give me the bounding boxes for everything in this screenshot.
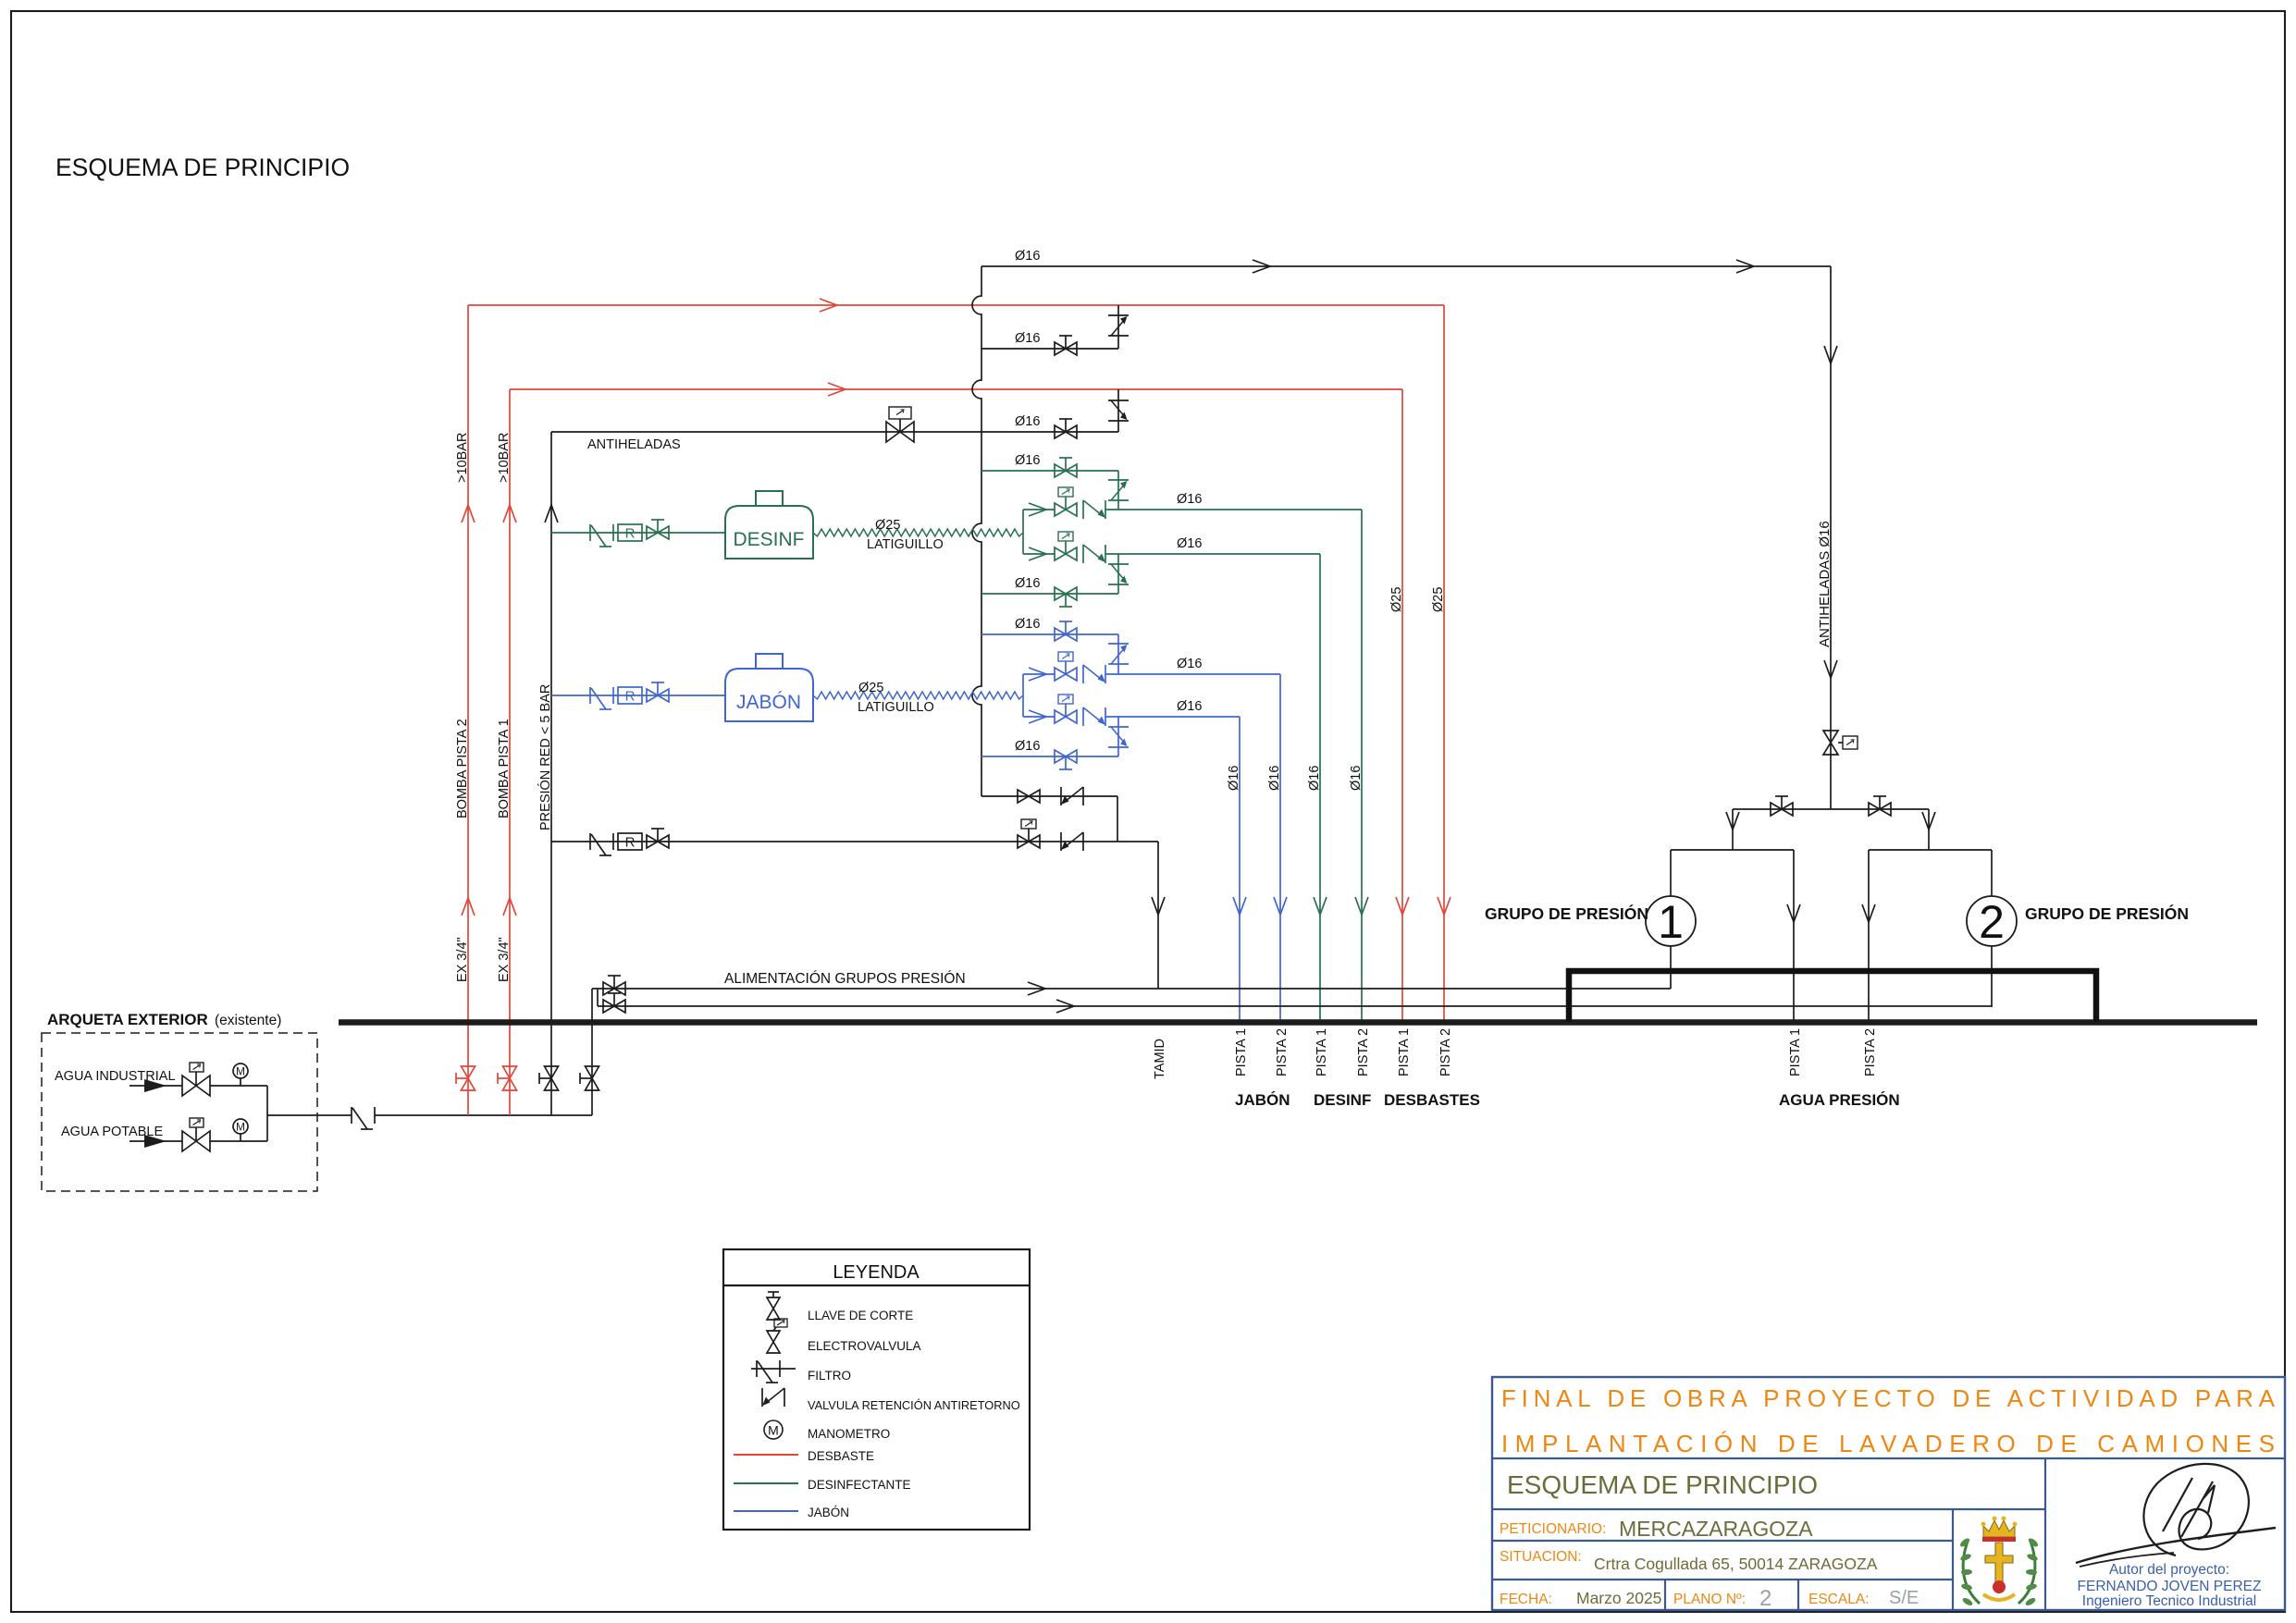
label EX 3/4" (pista 1) xyxy=(497,937,512,982)
blue electrovalve 2 xyxy=(1055,695,1077,723)
red riser BOMBA PISTA 1 valve xyxy=(498,1066,517,1090)
svg-text:2: 2 xyxy=(1979,896,2005,948)
value direccion xyxy=(1594,1555,1878,1573)
label AGUA PRESION bottom xyxy=(1779,1091,1900,1109)
svg-text:LEYENDA: LEYENDA xyxy=(833,1262,920,1283)
row377 riser to red line xyxy=(1117,305,1119,349)
svg-text:ANTIHELADAS: ANTIHELADAS xyxy=(587,437,681,452)
antiheladas right vertical wire xyxy=(1830,266,1832,809)
drain rowB electrovalve xyxy=(1018,819,1040,848)
subtitle ESQUEMA DE PRINCIPIO xyxy=(1507,1470,1818,1499)
blue branch2 wire a xyxy=(1023,716,1055,718)
row467 riser to red line xyxy=(1117,389,1119,432)
green branch1 arrow xyxy=(1029,503,1046,516)
label PLANO N xyxy=(1673,1592,1746,1607)
blue vertical PISTA1 wire xyxy=(1233,717,1246,1020)
svg-text:M: M xyxy=(236,1065,245,1078)
drain rowB valve xyxy=(647,829,669,848)
blue latiguillo zigzag xyxy=(813,692,1023,699)
svg-text:DESINFECTANTE: DESINFECTANTE xyxy=(808,1478,911,1492)
label O16 blue branch2 xyxy=(1177,699,1202,714)
blue row1 valve xyxy=(1055,621,1077,641)
svg-text:ELECTROVALVULA: ELECTROVALVULA xyxy=(808,1339,921,1353)
group2 span wire xyxy=(1869,849,1992,851)
circle node 1 xyxy=(1646,896,1696,948)
svg-text:(existente): (existente) xyxy=(215,1013,281,1028)
red line bomba pista 2 down wire xyxy=(1443,305,1445,1020)
label PISTA2 green xyxy=(1356,1028,1371,1076)
blue branch1 retention xyxy=(1083,665,1105,683)
wire valve to manometer node (industrial) xyxy=(210,1085,267,1087)
label O25 pista 2 xyxy=(1431,587,1446,612)
svg-text:ESQUEMA DE PRINCIPIO: ESQUEMA DE PRINCIPIO xyxy=(1507,1470,1818,1499)
group2 left vertical PISTA 2 xyxy=(1862,850,1875,1020)
svg-text:Ø16: Ø16 xyxy=(1227,766,1241,791)
red riser BOMBA PISTA 1 arrows xyxy=(503,505,516,916)
svg-text:Ø25: Ø25 xyxy=(1389,587,1404,612)
group1 left vertical (to circle 1) xyxy=(1670,850,1672,989)
svg-text:M: M xyxy=(768,1423,779,1438)
blue filter xyxy=(590,687,613,709)
drain rowA valve xyxy=(1018,790,1040,803)
blue electrovalve 1 xyxy=(1055,652,1077,681)
feed line 2 stub xyxy=(597,989,599,1006)
svg-text:DESINF: DESINF xyxy=(1314,1091,1371,1109)
red riser BOMBA PISTA 2 arrows xyxy=(462,505,475,916)
label PISTA1 blue xyxy=(1234,1028,1249,1076)
drawing title ESQUEMA DE PRINCIPIO xyxy=(56,154,350,181)
blue vertical PISTA2 wire xyxy=(1274,674,1287,1020)
manometer M industrial xyxy=(233,1064,248,1086)
red riser BOMBA PISTA 2 valve xyxy=(456,1066,475,1090)
svg-text:LLAVE DE CORTE: LLAVE DE CORTE xyxy=(808,1309,913,1322)
row467 retention valve xyxy=(1108,400,1129,421)
black riser arrow up xyxy=(545,505,558,523)
label JABON bottom xyxy=(1235,1091,1290,1109)
svg-text:GRUPO DE PRESIÓN: GRUPO DE PRESIÓN xyxy=(1485,904,1648,923)
svg-text:PISTA 2: PISTA 2 xyxy=(1863,1028,1878,1076)
svg-text:PETICIONARIO:: PETICIONARIO: xyxy=(1500,1521,1606,1537)
group2 drop wire xyxy=(1922,809,1935,850)
svg-text:Ø16: Ø16 xyxy=(1015,249,1040,264)
antiheladas electrovalve (right) xyxy=(1823,731,1858,755)
black riser PRESION RED wire xyxy=(550,432,552,1115)
svg-text:>10BAR: >10BAR xyxy=(455,433,470,483)
legend box + title xyxy=(723,1249,1030,1530)
tank DESINF xyxy=(725,491,813,559)
antiheladas wire xyxy=(551,431,1118,433)
black riser PRESION RED valve xyxy=(539,1066,559,1090)
label PISTA1 group xyxy=(1788,1028,1803,1076)
svg-text:FILTRO: FILTRO xyxy=(808,1369,851,1383)
svg-text:DESINF: DESINF xyxy=(733,529,804,550)
svg-text:Ø16: Ø16 xyxy=(1015,739,1040,754)
label EX 3/4" (pista 2) xyxy=(455,937,470,982)
svg-text:R: R xyxy=(625,526,636,542)
manifold vertical wire with hops xyxy=(972,266,981,796)
legend manometro xyxy=(764,1420,890,1441)
svg-text:PLANO Nº:: PLANO Nº: xyxy=(1673,1592,1746,1607)
label AGUA POTABLE xyxy=(61,1125,163,1139)
green row3 valve xyxy=(1055,587,1077,607)
feed riser wire (x=640) xyxy=(591,989,593,1115)
label GRUPO DE PRESION right xyxy=(2025,904,2189,923)
supply pipe wire to risers xyxy=(375,1114,592,1116)
antiheladas right arrows xyxy=(1824,346,1837,678)
svg-text:MANOMETRO: MANOMETRO xyxy=(808,1427,890,1441)
svg-text:GRUPO DE PRESIÓN: GRUPO DE PRESIÓN xyxy=(2025,904,2189,923)
svg-text:2: 2 xyxy=(1759,1586,1771,1611)
label DESINF bottom xyxy=(1314,1091,1371,1109)
label ANTIHELADAS O16 rotated xyxy=(1817,521,1833,647)
green branch1 wire b xyxy=(1105,509,1362,510)
label ANTIHELADAS xyxy=(587,437,681,452)
svg-text:R: R xyxy=(625,689,636,705)
svg-text:Ø16: Ø16 xyxy=(1267,766,1282,791)
svg-text:LATIGUILLO: LATIGUILLO xyxy=(858,700,934,715)
red down arrow pista 1 xyxy=(1396,897,1409,915)
blue retention v1 xyxy=(1108,644,1129,664)
svg-text:PISTA 1: PISTA 1 xyxy=(1788,1028,1803,1076)
red line bomba pista 2 horizontal wire xyxy=(468,304,1444,306)
legend desbaste xyxy=(734,1449,874,1463)
label BOMBA PISTA 2 xyxy=(455,719,470,818)
label O16 blue branch1 xyxy=(1177,657,1202,671)
red line bomba pista 2 arrow xyxy=(820,299,837,312)
green branch2 wire b xyxy=(1105,553,1320,555)
svg-text:ESCALA:: ESCALA: xyxy=(1808,1592,1869,1607)
svg-text:ARQUETA EXTERIOR: ARQUETA EXTERIOR xyxy=(47,1011,208,1028)
pressure group thick box xyxy=(1569,971,2096,1022)
svg-text:Ø16: Ø16 xyxy=(1015,414,1040,429)
green split wire xyxy=(1022,510,1024,554)
svg-text:BOMBA PISTA 1: BOMBA PISTA 1 xyxy=(497,719,512,818)
label autor xyxy=(2109,1562,2229,1578)
svg-text:TAMID: TAMID xyxy=(1153,1039,1167,1079)
label TAMID xyxy=(1153,1039,1167,1079)
filter on supply pipe xyxy=(352,1107,375,1129)
value fecha xyxy=(1576,1589,1661,1607)
label AGUA INDUSTRIAL xyxy=(55,1069,176,1084)
green branch2 wire a xyxy=(1023,553,1055,555)
svg-text:DESBASTE: DESBASTE xyxy=(808,1449,874,1463)
group header wire xyxy=(1733,808,1929,810)
label O16 green v1 xyxy=(1307,766,1322,791)
drain rowA drop xyxy=(1117,796,1118,842)
green vertical PISTA2 wire xyxy=(1355,510,1368,1020)
legend llave de corte xyxy=(767,1292,913,1322)
svg-text:PISTA 2: PISTA 2 xyxy=(1356,1028,1371,1076)
svg-text:Ø16: Ø16 xyxy=(1349,766,1364,791)
red riser BOMBA PISTA 1 wire xyxy=(509,389,511,1115)
svg-text:PISTA 1: PISTA 1 xyxy=(1234,1028,1249,1076)
blue regulator R xyxy=(618,687,642,705)
electrovalve agua industrial xyxy=(182,1063,210,1096)
drain rowA wire xyxy=(981,795,1117,797)
blue row3 valve xyxy=(1055,750,1077,769)
red line bomba pista 1 down wire xyxy=(1401,389,1403,1020)
drain rowB regulator R xyxy=(618,833,642,851)
arqueta exterior label xyxy=(47,1011,281,1028)
svg-text:Ø16: Ø16 xyxy=(1015,617,1040,632)
label PRESION RED < 5 BAR xyxy=(537,684,553,830)
green branch1 wire a xyxy=(1023,509,1055,510)
label PISTA2 blue xyxy=(1275,1028,1290,1076)
legend electrovalvula xyxy=(767,1319,921,1353)
svg-text:JABÓN: JABÓN xyxy=(1235,1091,1290,1109)
label PISTA1 green xyxy=(1315,1028,1329,1076)
blue branch1 wire a xyxy=(1023,673,1055,675)
drain rowB retention xyxy=(1061,832,1083,851)
svg-text:ANTIHELADAS Ø16: ANTIHELADAS Ø16 xyxy=(1817,521,1833,647)
label O25 latiguillo blue xyxy=(858,681,934,715)
green electrovalve 2 xyxy=(1055,532,1077,560)
blue row3 O16 wire xyxy=(981,756,1118,757)
legend desinfectante xyxy=(734,1478,911,1492)
svg-text:VALVULA RETENCIÓN ANTIRETORNO: VALVULA RETENCIÓN ANTIRETORNO xyxy=(808,1398,1020,1412)
crest logo xyxy=(1958,1517,2039,1607)
label O16 top xyxy=(1015,249,1040,264)
label PETICIONARIO xyxy=(1500,1521,1606,1537)
green row3 O16 wire xyxy=(981,593,1118,595)
svg-text:PISTA 2: PISTA 2 xyxy=(1438,1028,1453,1076)
label BOMBA PISTA 1 xyxy=(497,719,512,818)
feed line 2 arrow xyxy=(1056,1000,1074,1013)
green row3 rise xyxy=(1117,554,1119,594)
arqueta collector vertical wire xyxy=(266,1086,268,1141)
agua potable inlet wire + arrow xyxy=(130,1135,182,1148)
svg-text:Ø25: Ø25 xyxy=(1431,587,1446,612)
label ALIMENTACION GRUPOS PRESION xyxy=(724,971,966,987)
label O16 blue row1 xyxy=(1015,617,1040,632)
green row1 drop xyxy=(1117,471,1119,510)
svg-text:DESBASTES: DESBASTES xyxy=(1384,1091,1480,1109)
green branch2 retention xyxy=(1083,545,1105,563)
row467 valve xyxy=(1055,419,1077,438)
thick collector line xyxy=(339,1019,2257,1026)
blue feed wire xyxy=(551,695,725,696)
green retention v2 xyxy=(1108,564,1129,584)
group1 span wire xyxy=(1671,849,1794,851)
green electrovalve 1 xyxy=(1055,487,1077,516)
feed line 2 valve xyxy=(603,993,625,1013)
wire valve to manometer node (potable) xyxy=(210,1140,267,1142)
label SITUACION xyxy=(1500,1549,1582,1565)
label O16 row377 xyxy=(1015,331,1040,346)
label O25 pista 1 xyxy=(1389,587,1404,612)
red line bomba pista 1 horizontal wire xyxy=(510,388,1402,390)
row377 valve xyxy=(1055,336,1077,355)
TAMID vertical wire xyxy=(1152,842,1165,989)
svg-text:Crtra Cogullada 65, 50014 ZARA: Crtra Cogullada 65, 50014 ZARAGOZA xyxy=(1594,1555,1878,1573)
feed line 2 wire xyxy=(598,1005,1992,1007)
label PISTA1 red xyxy=(1397,1028,1412,1076)
svg-text:FERNANDO JOVEN PEREZ: FERNANDO JOVEN PEREZ xyxy=(2078,1579,2262,1594)
label ESCALA xyxy=(1808,1592,1869,1607)
svg-text:R: R xyxy=(625,835,636,851)
green latiguillo zigzag xyxy=(813,529,1023,536)
label O16 blue v2 xyxy=(1267,766,1282,791)
label autor nombre xyxy=(2078,1579,2262,1594)
label autor titulo xyxy=(2082,1593,2256,1609)
svg-text:Marzo 2025: Marzo 2025 xyxy=(1576,1589,1661,1607)
label O16 green row3 xyxy=(1015,576,1040,591)
svg-text:JABÓN: JABÓN xyxy=(736,692,801,713)
blue branch2 wire b xyxy=(1105,716,1240,718)
svg-text:ALIMENTACIÓN GRUPOS PRESIÓN: ALIMENTACIÓN GRUPOS PRESIÓN xyxy=(724,971,966,987)
group2 right vertical (to circle 2) xyxy=(1991,850,1993,1007)
svg-text:Ø25: Ø25 xyxy=(875,518,900,533)
top O16 wire xyxy=(981,265,1831,267)
group1 right vertical PISTA 1 xyxy=(1787,850,1800,1020)
signature xyxy=(2076,1464,2276,1567)
label PISTA2 group xyxy=(1863,1028,1878,1076)
group header valve right xyxy=(1869,796,1891,816)
legend jabon xyxy=(734,1506,849,1519)
title row 2 xyxy=(1501,1430,2275,1457)
row377 wire xyxy=(981,348,1118,350)
green regulator R xyxy=(618,524,642,542)
svg-text:Ø16: Ø16 xyxy=(1015,576,1040,591)
svg-text:Ø25: Ø25 xyxy=(858,681,883,695)
blue branch1 wire b xyxy=(1105,673,1280,675)
label O16 green row1 xyxy=(1015,453,1040,468)
svg-text:Ø16: Ø16 xyxy=(1015,331,1040,346)
green feed valve xyxy=(647,520,669,539)
label O16 blue v1 xyxy=(1227,766,1241,791)
title block grid xyxy=(1492,1377,2285,1610)
green filter xyxy=(590,524,613,547)
value escala xyxy=(1889,1588,1919,1608)
label >10BAR (pista 2) xyxy=(455,433,470,483)
top O16 arrows xyxy=(1253,260,1754,273)
svg-text:PISTA 2: PISTA 2 xyxy=(1275,1028,1290,1076)
feed line 1 arrow xyxy=(1028,982,1045,995)
arqueta exterior dashed box xyxy=(42,1033,317,1191)
feed riser valve xyxy=(580,1066,599,1090)
label DESBASTES bottom xyxy=(1384,1091,1480,1109)
svg-text:PRESIÓN RED < 5 BAR: PRESIÓN RED < 5 BAR xyxy=(537,684,553,830)
red riser BOMBA PISTA 2 wire xyxy=(467,305,469,1115)
label >10BAR (pista 1) xyxy=(497,433,512,483)
value MERCAZARAGOZA xyxy=(1619,1517,1813,1541)
blue row1 O16 wire xyxy=(981,633,1118,635)
label GRUPO DE PRESION left xyxy=(1485,904,1648,923)
value plano 2 xyxy=(1759,1586,1771,1611)
svg-text:PISTA 1: PISTA 1 xyxy=(1315,1028,1329,1076)
tank JABON xyxy=(725,654,813,721)
green feed wire xyxy=(551,532,725,534)
blue retention v2 xyxy=(1108,727,1129,747)
arqueta outlet wire xyxy=(267,1114,352,1116)
svg-text:Ø16: Ø16 xyxy=(1015,453,1040,468)
green vertical PISTA1 wire xyxy=(1314,554,1327,1020)
svg-text:Ø16: Ø16 xyxy=(1307,766,1322,791)
label O16 row467 xyxy=(1015,414,1040,429)
svg-text:1: 1 xyxy=(1658,896,1684,948)
blue row3 rise xyxy=(1117,717,1119,756)
green row1 O16 wire xyxy=(981,470,1118,472)
label O16 green branch2 xyxy=(1177,536,1202,551)
label O16 blue row3 xyxy=(1015,739,1040,754)
label PISTA2 red xyxy=(1438,1028,1453,1076)
svg-text:FECHA:: FECHA: xyxy=(1500,1592,1552,1607)
svg-text:AGUA INDUSTRIAL: AGUA INDUSTRIAL xyxy=(55,1069,176,1084)
svg-text:Ø16: Ø16 xyxy=(1177,657,1202,671)
agua industrial inlet wire + arrow xyxy=(130,1079,182,1092)
blue branch2 arrow xyxy=(1029,710,1046,723)
drain rowB wire xyxy=(551,841,1158,842)
blue feed valve xyxy=(647,682,669,702)
circle node 2 xyxy=(1967,896,2017,948)
svg-text:EX 3/4": EX 3/4" xyxy=(455,937,470,982)
legend filtro xyxy=(751,1360,851,1383)
svg-text:M: M xyxy=(236,1121,245,1134)
red down arrow pista 2 xyxy=(1438,897,1450,915)
svg-text:SITUACION:: SITUACION: xyxy=(1500,1549,1582,1565)
svg-text:>10BAR: >10BAR xyxy=(497,433,512,483)
blue split wire xyxy=(1022,674,1024,717)
feed line 1 valve xyxy=(603,976,625,995)
svg-text:Autor del proyecto:: Autor del proyecto: xyxy=(2109,1562,2229,1578)
antiheladas electrovalve xyxy=(886,407,914,442)
svg-text:PISTA 1: PISTA 1 xyxy=(1397,1028,1412,1076)
svg-text:Ø16: Ø16 xyxy=(1177,536,1202,551)
green branch2 arrow xyxy=(1029,547,1046,560)
green retention v1 xyxy=(1108,480,1129,500)
blue branch2 retention xyxy=(1083,707,1105,726)
svg-text:AGUA PRESIÓN: AGUA PRESIÓN xyxy=(1779,1091,1900,1109)
drain rowA retention xyxy=(1061,787,1083,805)
svg-text:Ingeniero Tecnico Industrial: Ingeniero Tecnico Industrial xyxy=(2082,1593,2256,1609)
svg-text:IMPLANTACIÓN DE LAVADERO DE CA: IMPLANTACIÓN DE LAVADERO DE CAMIONES xyxy=(1501,1430,2275,1457)
svg-text:MERCAZARAGOZA: MERCAZARAGOZA xyxy=(1619,1517,1813,1541)
label FECHA xyxy=(1500,1592,1552,1607)
electrovalve agua potable xyxy=(182,1118,210,1151)
svg-text:ESQUEMA DE PRINCIPIO: ESQUEMA DE PRINCIPIO xyxy=(56,154,350,181)
green branch1 retention xyxy=(1083,500,1105,519)
row377 retention valve xyxy=(1108,315,1129,336)
svg-text:EX 3/4": EX 3/4" xyxy=(497,937,512,982)
drain rowB filter xyxy=(590,833,613,855)
blue row1 drop xyxy=(1117,634,1119,674)
label O16 green branch1 xyxy=(1177,492,1202,507)
svg-text:S/E: S/E xyxy=(1889,1588,1919,1608)
svg-text:Ø16: Ø16 xyxy=(1177,699,1202,714)
blue branch1 arrow xyxy=(1029,668,1046,681)
label O25 latiguillo green xyxy=(867,518,944,552)
group header valve left xyxy=(1771,796,1793,816)
feed line 1 wire xyxy=(592,988,1671,990)
svg-text:LATIGUILLO: LATIGUILLO xyxy=(867,537,944,552)
green row1 valve xyxy=(1055,458,1077,477)
manometer M potable xyxy=(233,1119,248,1141)
svg-text:JABÓN: JABÓN xyxy=(808,1506,849,1519)
label O16 green v2 xyxy=(1349,766,1364,791)
red line bomba pista 1 arrow xyxy=(828,383,846,396)
svg-text:BOMBA PISTA 2: BOMBA PISTA 2 xyxy=(455,719,470,818)
legend valvula retencion xyxy=(762,1388,1020,1412)
title row 1 xyxy=(1501,1384,2276,1412)
group1 drop wire xyxy=(1726,809,1739,850)
svg-text:Ø16: Ø16 xyxy=(1177,492,1202,507)
